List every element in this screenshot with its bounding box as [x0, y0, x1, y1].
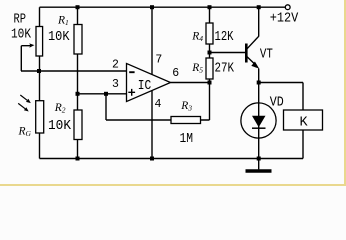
svg-text:10K: 10K	[11, 28, 32, 43]
svg-text:7: 7	[155, 54, 162, 67]
transistor VT base bar	[245, 44, 248, 63]
junction pin7 top rail	[150, 5, 154, 9]
wire base of VT	[210, 52, 246, 54]
transistor VT emitter with arrow	[247, 57, 259, 69]
label R4 value 12K	[215, 30, 235, 45]
wire pin 3 input	[78, 93, 127, 95]
label R5	[191, 62, 203, 75]
resistor R3 body	[171, 117, 201, 124]
label pin 4	[155, 98, 162, 111]
svg-text:10K: 10K	[48, 30, 70, 45]
wire R1/R2 branch vertical	[77, 7, 79, 158]
svg-text:10K: 10K	[48, 119, 72, 134]
transistor VT collector	[247, 36, 259, 49]
svg-text:2: 2	[112, 59, 119, 72]
svg-text:IC: IC	[138, 79, 152, 94]
wire top power rail	[40, 6, 286, 8]
wire R4/R5 branch	[209, 7, 211, 82]
wire VD branch vertical	[258, 83, 260, 159]
wire emitter node to relay	[259, 83, 303, 111]
label RG	[18, 126, 32, 139]
junction output node	[208, 81, 212, 85]
label R3	[180, 100, 192, 113]
resistor R2 body	[74, 110, 82, 140]
label pin 7	[155, 54, 162, 67]
label pin 3	[112, 78, 119, 91]
wire collector riser	[258, 7, 260, 36]
resistor R5 body	[206, 58, 213, 79]
junction RP wiper node	[37, 69, 41, 73]
label R1 value 10K	[48, 30, 70, 45]
terminal +12V circle	[285, 5, 290, 10]
junction R1 top rail	[76, 5, 80, 9]
photoresistor RG body	[36, 101, 44, 133]
frame border bottom	[0, 184, 346, 186]
wire pin 2 input (from RP wiper)	[21, 70, 127, 72]
svg-text:12K: 12K	[215, 30, 235, 45]
op-amp plus sign	[128, 89, 135, 96]
svg-text:RP: RP	[14, 13, 27, 28]
label R2	[54, 102, 66, 115]
label R2 value 10K	[48, 119, 72, 134]
junction VD ground rail	[257, 157, 261, 161]
op-amp IC triangle	[127, 64, 171, 102]
svg-text:27K: 27K	[215, 62, 235, 77]
ground	[246, 159, 272, 172]
svg-text:+12V: +12V	[270, 12, 299, 27]
svg-text:1M: 1M	[180, 132, 194, 147]
wire pin 4 supply	[151, 91, 153, 159]
label VT	[260, 48, 273, 63]
label K	[300, 116, 309, 131]
wire emitter riser	[258, 69, 260, 83]
wire bottom ground rail	[40, 158, 304, 160]
junction R2 ground rail	[76, 157, 80, 161]
label R4	[191, 31, 203, 44]
svg-text:VT: VT	[260, 48, 273, 63]
wire pin 7 supply	[151, 7, 153, 74]
svg-text:VD: VD	[270, 96, 284, 111]
photoresistor light arrow 2	[18, 103, 29, 111]
wire pin 6 output	[171, 82, 210, 84]
junction base node	[208, 51, 212, 55]
wire feedback right segment	[201, 83, 210, 121]
label pin 2	[112, 59, 119, 72]
label IC	[138, 79, 152, 94]
photoresistor light arrow 1	[20, 95, 31, 103]
junction feedback pin3 node	[104, 92, 108, 96]
wire feedback left riser	[106, 94, 171, 120]
frame border right	[344, 0, 346, 186]
svg-text:K: K	[300, 116, 309, 131]
potentiometer RP body	[36, 27, 43, 57]
label RP	[14, 13, 27, 28]
junction R1 R2 pin3 node	[76, 92, 80, 96]
junction pin4 ground rail	[150, 157, 154, 161]
wire left branch vertical (RP/RG column)	[39, 7, 41, 158]
label VD	[270, 96, 284, 111]
label pin 6	[172, 67, 179, 80]
label R3 value 1M	[180, 132, 194, 147]
junction R4 top rail	[208, 5, 212, 9]
relay K box	[284, 110, 323, 130]
diode VD cathode bar	[252, 127, 266, 129]
svg-text:3: 3	[112, 78, 119, 91]
wire relay to ground rail	[302, 130, 304, 159]
wire RP wiper arm	[21, 46, 30, 71]
potentiometer RP wiper arrow	[29, 43, 34, 47]
junction collector top rail	[257, 5, 261, 9]
svg-text:6: 6	[172, 67, 179, 80]
svg-text:4: 4	[155, 98, 162, 111]
resistor R1 body	[74, 25, 82, 55]
label RP value 10K	[11, 28, 32, 43]
diode VD triangle	[252, 116, 266, 128]
label R5 value 27K	[215, 62, 235, 77]
label R1	[57, 14, 69, 27]
diode VD circle	[241, 103, 276, 138]
junction emitter node	[257, 81, 261, 85]
label +12V	[270, 12, 299, 27]
op-amp minus sign	[129, 71, 134, 73]
resistor R4 body	[206, 23, 213, 44]
